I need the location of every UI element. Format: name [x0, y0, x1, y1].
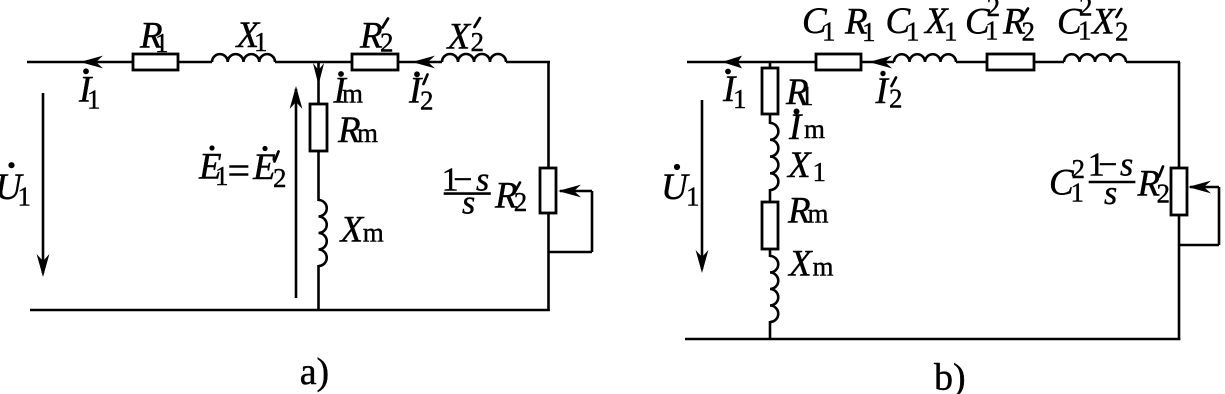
- svg-text:I: I: [875, 71, 890, 112]
- svg-text:m: m: [342, 79, 363, 109]
- svg-text:1: 1: [906, 17, 920, 47]
- svg-text:1: 1: [1078, 16, 1092, 46]
- svg-text:2: 2: [889, 84, 903, 114]
- svg-text:2: 2: [273, 163, 287, 193]
- svg-text:m: m: [808, 199, 829, 229]
- svg-text:m: m: [357, 118, 378, 148]
- svg-text:=: =: [228, 148, 251, 193]
- svg-text:1: 1: [985, 16, 999, 46]
- svg-text:m: m: [804, 114, 825, 144]
- svg-text:b): b): [934, 357, 966, 394]
- svg-text:1: 1: [800, 81, 814, 111]
- svg-text:m: m: [813, 252, 834, 282]
- svg-text:2: 2: [1022, 17, 1036, 47]
- svg-text:s: s: [1120, 147, 1133, 184]
- svg-text:X: X: [786, 145, 812, 186]
- svg-text:1: 1: [686, 182, 700, 212]
- svg-text:2: 2: [514, 187, 528, 217]
- svg-text:X: X: [1090, 2, 1116, 43]
- svg-text:s: s: [462, 185, 475, 222]
- svg-text:2: 2: [420, 86, 434, 116]
- svg-text:1: 1: [1071, 178, 1085, 208]
- svg-text:2: 2: [1115, 17, 1129, 47]
- svg-text:I: I: [788, 107, 803, 148]
- svg-text:2: 2: [471, 27, 485, 57]
- svg-text:X: X: [446, 17, 472, 58]
- svg-text:a): a): [300, 351, 330, 393]
- svg-text:s: s: [1104, 175, 1117, 212]
- svg-text:1: 1: [862, 17, 876, 47]
- svg-text:2: 2: [1157, 179, 1171, 209]
- svg-text:X: X: [787, 244, 813, 285]
- svg-text:X: X: [339, 210, 365, 251]
- svg-text:1: 1: [254, 27, 268, 57]
- svg-text:1: 1: [18, 182, 32, 212]
- svg-text:1: 1: [155, 28, 169, 58]
- svg-text:1: 1: [813, 157, 827, 187]
- svg-text:1: 1: [944, 17, 958, 47]
- svg-text:m: m: [363, 218, 384, 248]
- svg-text:1: 1: [87, 85, 101, 115]
- svg-text:1: 1: [733, 84, 747, 114]
- svg-text:1: 1: [822, 17, 836, 47]
- svg-text:2: 2: [380, 28, 394, 58]
- svg-text:1: 1: [215, 161, 229, 191]
